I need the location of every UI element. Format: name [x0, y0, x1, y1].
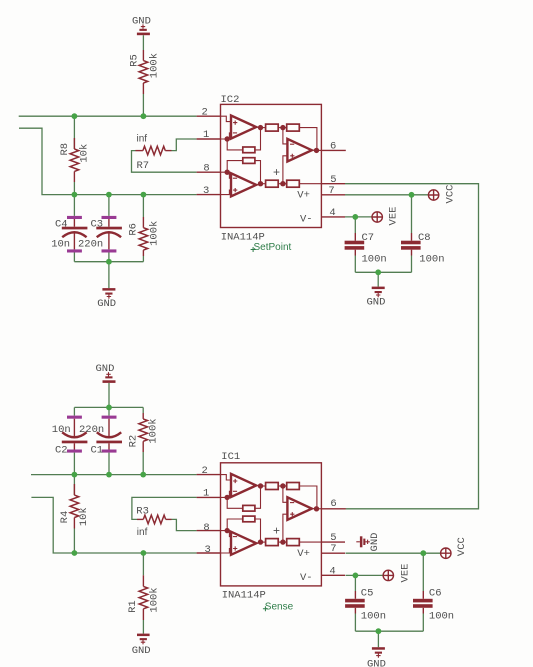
ground GND top (above C1) [96, 363, 116, 383]
wire top rail C2-C1-R2 [74, 406, 143, 408]
wire R7 right to pin1 [172, 139, 197, 151]
svg-text:C4: C4 [55, 219, 68, 231]
svg-text:GND: GND [369, 533, 381, 552]
svg-text:inf: inf [137, 133, 148, 144]
svg-text:10k: 10k [78, 507, 90, 526]
wire pin7 to VCC (lower) [346, 552, 441, 554]
svg-text:VEE: VEE [400, 564, 412, 583]
svg-text:C6: C6 [429, 587, 442, 599]
wire to ground [377, 631, 379, 647]
capacitor C3 220n [78, 195, 122, 262]
ground GND at IC1 pin5 (rotated) [356, 533, 381, 552]
svg-text:1: 1 [203, 488, 209, 500]
svg-text:C5: C5 [361, 587, 374, 599]
svg-text:INA114P: INA114P [222, 590, 266, 602]
svg-text:C7: C7 [362, 232, 375, 244]
wire pin2 rail (input 1 lower) [31, 474, 197, 476]
op-amp IC2 INA114P [197, 94, 346, 243]
wire pin2 rail (input 1) [19, 115, 197, 117]
svg-text:7: 7 [328, 185, 334, 197]
svg-text:VEE: VEE [387, 207, 399, 226]
node junction R6 top [141, 192, 147, 198]
wire rail C5-C6 [355, 630, 423, 632]
node junction C3 bottom [106, 259, 112, 265]
capacitor C1 220n [79, 407, 122, 474]
label Sense [263, 602, 294, 613]
svg-text:100n: 100n [362, 254, 387, 266]
wire GND to R5 [142, 35, 144, 50]
wire input 2 and pin3 rail [19, 128, 197, 194]
svg-text:8: 8 [203, 162, 209, 174]
node junction C8 top [409, 192, 415, 198]
wire R3 left to pin1 [132, 497, 197, 519]
node junction R4 bottom [72, 550, 78, 556]
svg-text:C1: C1 [91, 444, 104, 456]
svg-text:VCC: VCC [445, 185, 457, 204]
svg-text:6: 6 [330, 498, 336, 510]
node junction C1 top [106, 405, 112, 411]
capacitor C6 100n [413, 553, 454, 631]
svg-text:6: 6 [330, 141, 336, 153]
svg-text:10n: 10n [51, 238, 70, 250]
svg-text:100k: 100k [149, 53, 161, 78]
capacitor C2 10n [52, 407, 88, 474]
svg-text:GND: GND [97, 298, 116, 310]
node junction R5 bottom [141, 113, 147, 119]
supply VEE (lower) [383, 564, 412, 583]
svg-text:100n: 100n [429, 610, 454, 622]
wire to ground [108, 262, 110, 288]
svg-text:GND: GND [96, 363, 115, 375]
capacitor C8 100n [401, 195, 445, 272]
svg-text:220n: 220n [78, 238, 103, 250]
svg-text:GND: GND [132, 15, 151, 27]
node junction GND tap (lower) [376, 628, 382, 634]
op-amp IC1 INA114P [197, 451, 346, 601]
supply VCC (lower) [440, 537, 468, 558]
resistor R1 100k [127, 553, 161, 634]
svg-text:VCC: VCC [456, 537, 468, 556]
svg-text:C8: C8 [418, 232, 431, 244]
svg-text:GND: GND [367, 297, 386, 309]
supply VCC (upper) [428, 185, 456, 204]
wire pin7 to VCC [345, 194, 428, 196]
resistor R6 100k [128, 195, 161, 262]
svg-text:10k: 10k [78, 144, 90, 163]
node junction R8 top [72, 113, 78, 119]
svg-text:R2: R2 [127, 435, 139, 448]
capacitor C5 100n [345, 575, 386, 631]
resistor R5 100k [129, 50, 161, 94]
svg-text:7: 7 [330, 543, 336, 555]
wire GND to top rail [108, 383, 110, 408]
svg-text:2: 2 [202, 465, 208, 477]
wire R5 to pin2 rail [142, 94, 144, 116]
wire input 2 and pin3 rail (lower) [31, 497, 196, 553]
node junction C5 top [353, 573, 359, 579]
svg-text:2: 2 [202, 106, 208, 118]
svg-text:100n: 100n [361, 610, 386, 622]
svg-text:R3: R3 [136, 506, 149, 518]
svg-text:IC2: IC2 [221, 94, 240, 106]
svg-text:GND: GND [367, 659, 386, 667]
svg-text:4: 4 [329, 566, 335, 578]
svg-text:R5: R5 [129, 54, 141, 67]
svg-text:100k: 100k [149, 587, 161, 612]
resistor R4 10k [59, 475, 90, 553]
svg-text:220n: 220n [79, 424, 104, 436]
svg-text:GND: GND [132, 645, 151, 657]
ground GND below R1 [132, 634, 151, 658]
svg-text:10n: 10n [52, 424, 71, 436]
svg-text:100k: 100k [148, 418, 160, 443]
wire pin4 to VEE [345, 216, 372, 218]
svg-text:Sense: Sense [265, 602, 294, 613]
svg-text:3: 3 [205, 544, 211, 556]
resistor R3 inf (gain, lower) [136, 506, 171, 539]
svg-text:4: 4 [329, 207, 335, 219]
wire R7 left to pin8 [132, 151, 197, 173]
ground GND below C5/C6 [367, 647, 386, 667]
svg-text:100n: 100n [419, 254, 444, 266]
resistor R8 10k [59, 116, 90, 194]
node junction R1 top [141, 550, 147, 556]
wire bottom rail C4-C3-R6 [74, 261, 143, 263]
wire pin4 to VEE (lower) [346, 574, 384, 576]
node junction C7 top [352, 214, 358, 220]
svg-text:8: 8 [203, 522, 209, 534]
node junction C1 bottom [106, 472, 112, 478]
ground GND top (above R5) [132, 15, 151, 35]
supply VEE (upper) [372, 207, 400, 226]
svg-text:C2: C2 [55, 444, 68, 456]
svg-text:SetPoint: SetPoint [254, 242, 292, 253]
svg-text:R4: R4 [59, 511, 71, 524]
svg-text:IC1: IC1 [221, 451, 240, 463]
node junction C3 top [106, 192, 112, 198]
resistor R7 inf (gain) [136, 133, 172, 172]
ground GND below C3 [97, 288, 116, 310]
node junction GND tap [375, 269, 381, 275]
capacitor C7 100n [345, 217, 387, 272]
node junction R2 bottom [140, 472, 146, 478]
svg-text:R6: R6 [128, 223, 140, 236]
ground GND below C7/C8 [367, 287, 386, 309]
resistor R2 100k [127, 407, 159, 474]
node junction C6 top [420, 550, 426, 556]
wire rail C7-C8 [355, 271, 411, 273]
node junction C2 bottom [72, 472, 78, 478]
svg-text:R1: R1 [127, 600, 139, 613]
label SetPoint [251, 242, 292, 253]
svg-text:R8: R8 [59, 143, 71, 156]
wire R3 right to pin8 [172, 519, 197, 530]
capacitor C4 10n [51, 195, 87, 262]
wire IC2 pin5 to IC1 pin6 (long net) [345, 184, 479, 509]
node junction R8 bottom [72, 192, 78, 198]
svg-text:100k: 100k [149, 221, 161, 246]
wire to ground [377, 272, 379, 286]
svg-text:R7: R7 [137, 160, 150, 172]
svg-text:C3: C3 [91, 219, 104, 231]
svg-text:inf: inf [137, 527, 148, 538]
svg-text:3: 3 [203, 185, 209, 197]
svg-text:1: 1 [203, 129, 209, 141]
